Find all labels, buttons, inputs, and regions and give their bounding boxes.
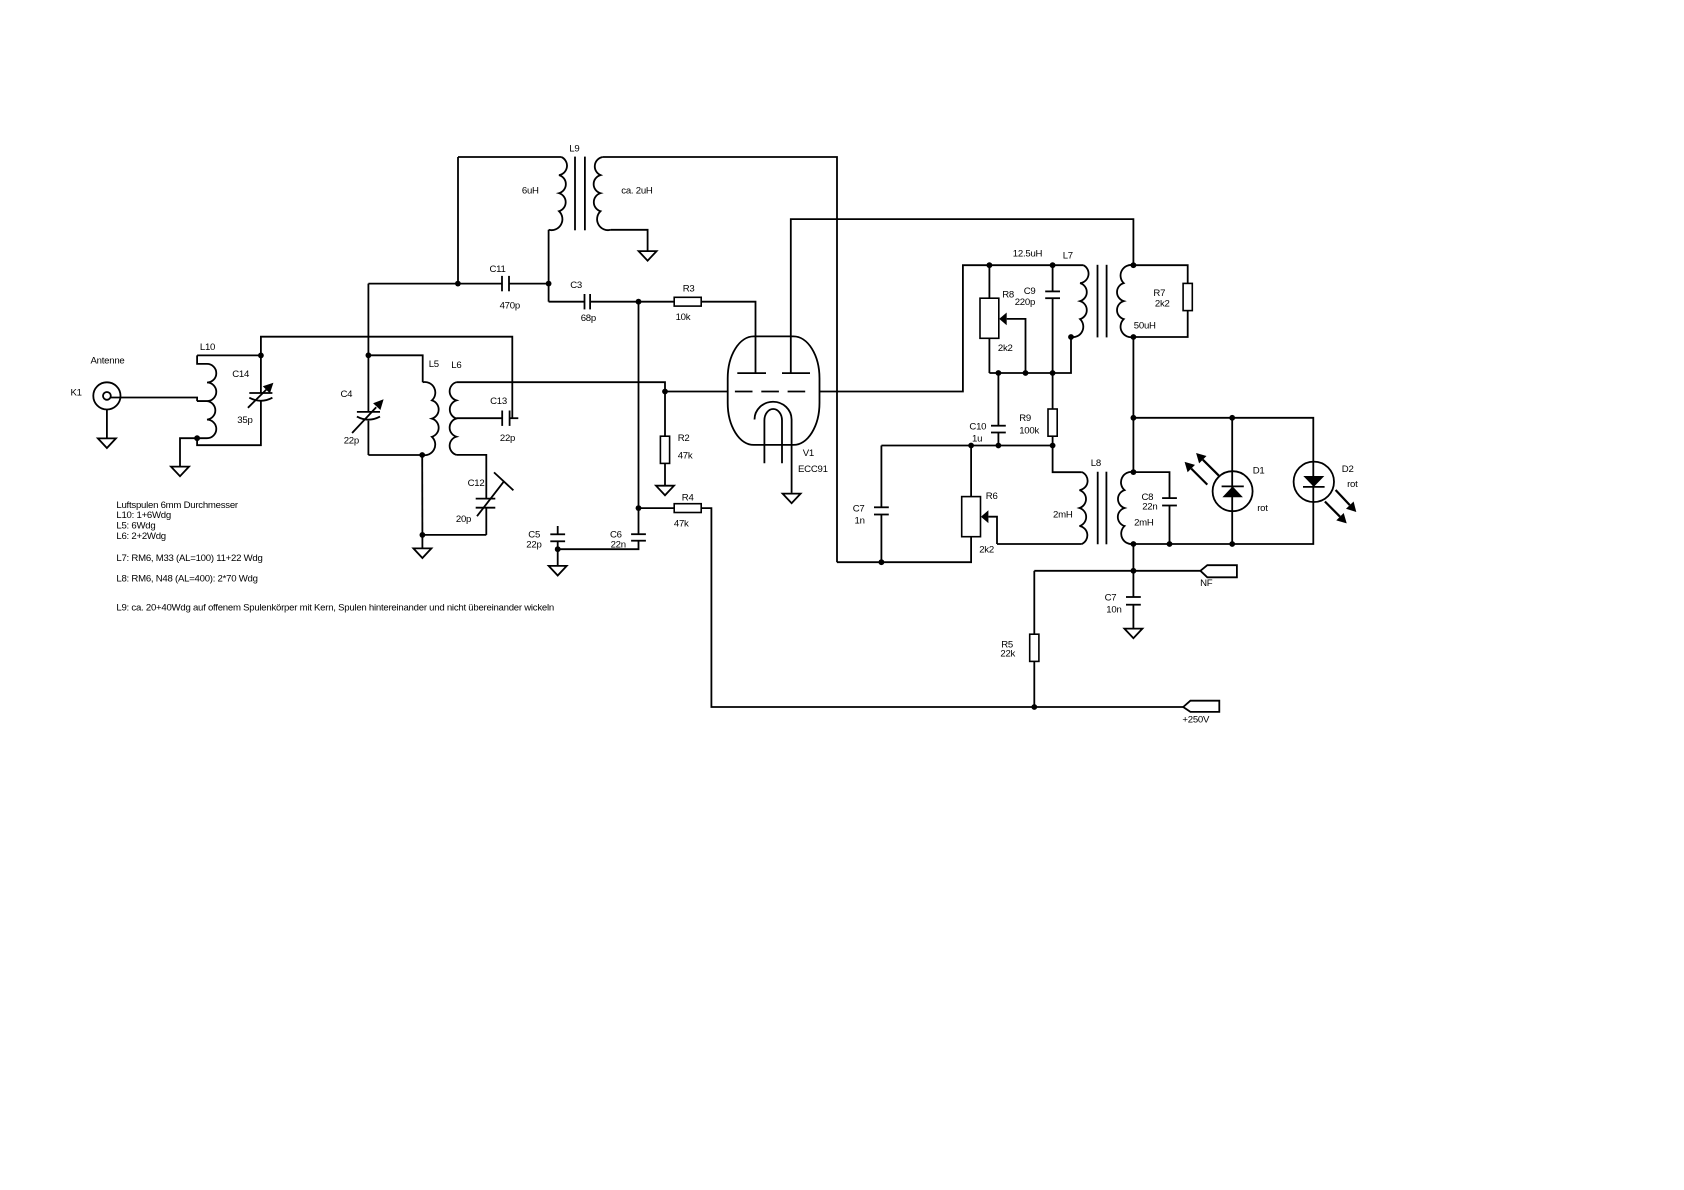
potentiometer R8 2k2 [980, 265, 1026, 373]
ground (R2) [656, 486, 674, 496]
node C8 bottom [1167, 541, 1173, 547]
wire L10 top [197, 354, 261, 356]
svg-text:C13: C13 [490, 396, 507, 407]
wire node rail y=445.5 [881, 445, 1052, 447]
svg-text:rot: rot [1347, 479, 1358, 490]
svg-text:L8: L8 [1091, 458, 1101, 469]
node C9 top [1050, 262, 1056, 268]
wire tank ground rail to C12 [422, 534, 486, 536]
wire L10 bottom to ground [180, 438, 197, 466]
node D rail junction [1131, 415, 1137, 421]
svg-text:470p: 470p [500, 301, 520, 312]
wire C4 riser [367, 284, 369, 356]
svg-text:C7: C7 [1105, 593, 1117, 604]
capacitor C3 68p [570, 280, 596, 324]
wire L8 bottom to NF junction [1132, 544, 1134, 571]
svg-text:12.5uH: 12.5uH [1013, 249, 1043, 260]
node C7-1n bottom [879, 559, 885, 565]
capacitor C12 20p (trimmer) [456, 472, 514, 535]
V1 cathode [755, 402, 792, 493]
svg-text:C14: C14 [232, 369, 250, 380]
potentiometer R6 2k2 [962, 446, 998, 556]
wire V1 anode 2 to L7 [791, 219, 1134, 373]
node C10 bottom [996, 443, 1002, 449]
wire K1 to ground [106, 410, 108, 439]
wire D1 branch [1231, 418, 1233, 471]
resistor R5 22k [1000, 571, 1038, 707]
capacitor C7 10n [1105, 571, 1141, 629]
inductor L8 secondary 2mH [1118, 472, 1154, 544]
capacitor C10 1u [969, 373, 1005, 446]
inductor L7 secondary 50uH [1117, 265, 1156, 337]
node C10 top [996, 370, 1002, 376]
wire R6 wiper to L8 primary bottom [997, 543, 1082, 545]
inductor L9 primary 6uH [522, 157, 567, 230]
node C11 left [455, 281, 461, 287]
wire C3 junction down to R4 junction [638, 302, 640, 508]
node NF junction [1131, 568, 1137, 574]
inductor L9 secondary ca. 2uH [594, 157, 653, 230]
svg-text:20p: 20p [456, 514, 471, 525]
svg-text:D2: D2 [1342, 464, 1354, 475]
svg-text:L9: ca. 20+40Wdg auf offenem S: L9: ca. 20+40Wdg auf offenem Spulenkörpe… [116, 603, 554, 614]
node L10 bottom [194, 435, 200, 441]
svg-text:R3: R3 [683, 283, 695, 294]
node C4 top [366, 352, 372, 358]
wire R4 to +250V rail [701, 508, 1183, 707]
wire grid out of tube to R8 rail [820, 265, 1084, 391]
wire L7 secondary bottom to L8 [1132, 337, 1134, 472]
LED D1 rot [1185, 453, 1269, 514]
tube V1 ECC91 envelope [728, 336, 828, 475]
svg-text:D1: D1 [1253, 466, 1265, 477]
svg-text:100k: 100k [1019, 426, 1039, 437]
svg-text:C11: C11 [490, 264, 506, 275]
wire NF [1034, 570, 1200, 572]
wire L10/C14 node up and right to C13 [261, 337, 512, 419]
svg-text:L8: RM6, N48 (AL=400): 2*70 Wd: L8: RM6, N48 (AL=400): 2*70 Wdg [116, 573, 257, 584]
svg-text:10n: 10n [1106, 605, 1121, 616]
capacitor C13 22p [490, 396, 518, 444]
node C5 bottom [555, 546, 561, 552]
svg-text:L10: L10 [200, 342, 215, 353]
node L8 secondary bottom [1131, 541, 1137, 547]
wire L9 primary top [458, 156, 561, 158]
V1 grid (dashed) [735, 391, 805, 393]
wire C6 bottom to C5 node [558, 541, 639, 550]
resistor R9 100k [1019, 373, 1057, 446]
inductor L7 primary 12.5uH [1013, 249, 1089, 338]
svg-text:220p: 220p [1015, 297, 1035, 308]
V1 anode plate 1 [737, 372, 766, 374]
svg-text:10k: 10k [676, 312, 691, 323]
svg-text:C7: C7 [853, 504, 865, 515]
wire C5 node to ground [557, 549, 559, 566]
svg-text:C12: C12 [468, 478, 485, 489]
wire L6 mid tap to C13 [456, 417, 502, 419]
wire L5 bottom to C4 bottom [368, 454, 422, 456]
capacitor C4 22p (variable) [341, 355, 384, 455]
node C9 bottom / R9 top [1050, 370, 1056, 376]
capacitor C7 1n [853, 446, 889, 563]
svg-text:22k: 22k [1000, 649, 1015, 660]
node L8 secondary top [1131, 469, 1137, 475]
svg-text:2mH: 2mH [1134, 518, 1154, 529]
node L7 primary bottom [1068, 334, 1074, 340]
svg-text:6uH: 6uH [522, 186, 539, 197]
node wiper R8 / rail [1023, 370, 1029, 376]
wire C4 top to L5 top [368, 355, 422, 382]
svg-text:Luftspulen 6mm Durchmesser: Luftspulen 6mm Durchmesser [116, 500, 239, 511]
transformer core L7 [1098, 265, 1107, 338]
svg-text:R4: R4 [682, 493, 695, 504]
ground (C7 10n) [1124, 629, 1142, 639]
svg-text:68p: 68p [581, 313, 596, 324]
connector flag +250V [1182, 701, 1219, 726]
wire right rail to R6 bottom [837, 537, 971, 563]
svg-text:NF: NF [1200, 578, 1213, 589]
node L10 top / C14 [258, 353, 264, 359]
resistor R2 47k [660, 392, 692, 486]
resistor R7 2k2 [1133, 265, 1192, 337]
transformer core L8 [1098, 472, 1107, 545]
svg-text:L10: 1+6Wdg: L10: 1+6Wdg [116, 510, 171, 521]
capacitor C9 220p [1015, 265, 1060, 373]
svg-text:2k2: 2k2 [1155, 299, 1170, 310]
wire K1 to L10 tap [111, 398, 197, 402]
wire D1 bottom branch [1231, 511, 1233, 544]
inductor L5 (6Wdg) [422, 359, 439, 455]
wire D rail [1133, 418, 1313, 462]
wire tank gnd stub [421, 535, 423, 549]
ground (C5/C6) [549, 566, 567, 576]
resistor R4 47k [639, 493, 702, 530]
wire L9 secondary bottom to ground [611, 230, 648, 251]
svg-text:22p: 22p [500, 433, 515, 444]
wire R8 rail [989, 337, 1071, 373]
label L7 [1063, 251, 1073, 262]
svg-text:2k2: 2k2 [979, 545, 994, 556]
svg-text:1n: 1n [855, 515, 865, 526]
svg-text:2k2: 2k2 [998, 343, 1013, 354]
svg-text:R9: R9 [1019, 413, 1031, 424]
wire C3 to R3 [590, 301, 674, 303]
svg-text:V1: V1 [803, 448, 814, 459]
ground (V1 cathode) [783, 494, 801, 504]
svg-text:35p: 35p [237, 415, 252, 426]
connector K1 (antenna jack) [71, 356, 125, 410]
svg-text:22p: 22p [344, 435, 359, 446]
svg-text:L9: L9 [569, 144, 579, 155]
ground (L9 secondary) [639, 251, 657, 261]
wire L6 bottom to C12 [456, 455, 486, 499]
LED D2 rot [1294, 462, 1359, 524]
node C11 right [546, 281, 552, 287]
svg-text:C3: C3 [570, 280, 582, 291]
node R6 top [968, 443, 974, 449]
capacitor C5 22p [526, 526, 565, 550]
capacitor C8 22n [1133, 472, 1177, 544]
label L8 [1091, 458, 1101, 469]
svg-text:47k: 47k [678, 451, 693, 462]
ground (L10) [171, 467, 189, 477]
node R8 top [987, 262, 993, 268]
svg-text:R7: R7 [1153, 288, 1165, 299]
connector flag NF [1200, 565, 1237, 589]
transformer core L9 [575, 157, 585, 231]
resistor R3 10k [674, 283, 701, 323]
node R5 bottom / +250V rail [1031, 704, 1037, 710]
svg-text:ECC91: ECC91 [798, 464, 828, 475]
svg-text:47k: 47k [674, 519, 689, 530]
wire V1 cathode to ground [791, 492, 793, 495]
node tank ground junction [420, 532, 426, 538]
wire L9 primary bottom riser [548, 230, 550, 302]
inductor L6 (2+2Wdg) [450, 360, 462, 455]
ground (tank) [413, 548, 431, 558]
svg-text:22p: 22p [526, 539, 541, 550]
node R9 bottom / L8 branch [1050, 443, 1056, 449]
svg-text:L5: 6Wdg: L5: 6Wdg [116, 521, 155, 532]
svg-text:Antenne: Antenne [91, 356, 125, 367]
svg-text:L5: L5 [429, 359, 439, 370]
node C3/R3 wire junction [636, 299, 642, 305]
inductor L10 (1+6Wdg, tapped air coil) [197, 342, 216, 438]
label L9 [569, 144, 579, 155]
svg-text:ca. 2uH: ca. 2uH [621, 186, 653, 197]
V1 anode plate 2 [782, 372, 810, 374]
node L7 secondary top [1131, 262, 1137, 268]
svg-text:C10: C10 [969, 422, 986, 433]
svg-text:1u: 1u [972, 434, 982, 445]
node L5 bottom [419, 452, 425, 458]
node D1 top branch [1229, 415, 1235, 421]
svg-text:C4: C4 [341, 389, 354, 400]
wire C11 net left segment [368, 283, 458, 285]
svg-text:2mH: 2mH [1053, 510, 1073, 521]
capacitor C6 22n [610, 530, 646, 551]
wire L10 bottom to C14 bottom [197, 401, 261, 445]
wire L6 top to grid [456, 382, 665, 391]
wire R3 to V1 anode 1 [701, 302, 755, 373]
svg-text:L6: L6 [451, 360, 461, 371]
svg-text:50uH: 50uH [1134, 321, 1156, 332]
svg-text:R8: R8 [1002, 290, 1014, 301]
capacitor C11 470p [458, 264, 549, 312]
capacitor C14 35p (variable) [232, 355, 273, 426]
wire L9 bottom to C3 [549, 301, 585, 303]
wire L5 bottom down [421, 455, 423, 535]
wire L8 branch down [1053, 446, 1082, 473]
node D1 bottom [1229, 541, 1235, 547]
inductor L8 primary 2mH [1053, 472, 1088, 544]
node grid / R2 [662, 389, 668, 395]
svg-text:+250V: +250V [1182, 715, 1210, 726]
wire L9 primary left riser [457, 157, 459, 284]
node R4 junction [636, 505, 642, 511]
wire LED bottom rail [1133, 502, 1313, 544]
node L7 secondary bottom [1131, 334, 1137, 340]
note text block [116, 500, 554, 614]
ground (K1) [98, 438, 116, 448]
svg-text:L7: L7 [1063, 251, 1073, 262]
wire grid into tube [665, 391, 728, 393]
svg-text:K1: K1 [71, 388, 82, 399]
svg-text:L7: RM6, M33 (AL=100) 11+22 Wd: L7: RM6, M33 (AL=100) 11+22 Wdg [116, 553, 262, 564]
svg-text:rot: rot [1257, 503, 1268, 514]
wire R4 junction to C6 [638, 508, 640, 534]
V1 heater [764, 409, 782, 463]
svg-text:R2: R2 [678, 433, 690, 444]
svg-text:L6: 2+2Wdg: L6: 2+2Wdg [116, 531, 166, 542]
wire L9 secondary top to right rail [603, 157, 837, 562]
svg-text:C9: C9 [1024, 286, 1036, 297]
svg-text:22n: 22n [1142, 502, 1157, 513]
svg-text:R6: R6 [986, 491, 998, 502]
